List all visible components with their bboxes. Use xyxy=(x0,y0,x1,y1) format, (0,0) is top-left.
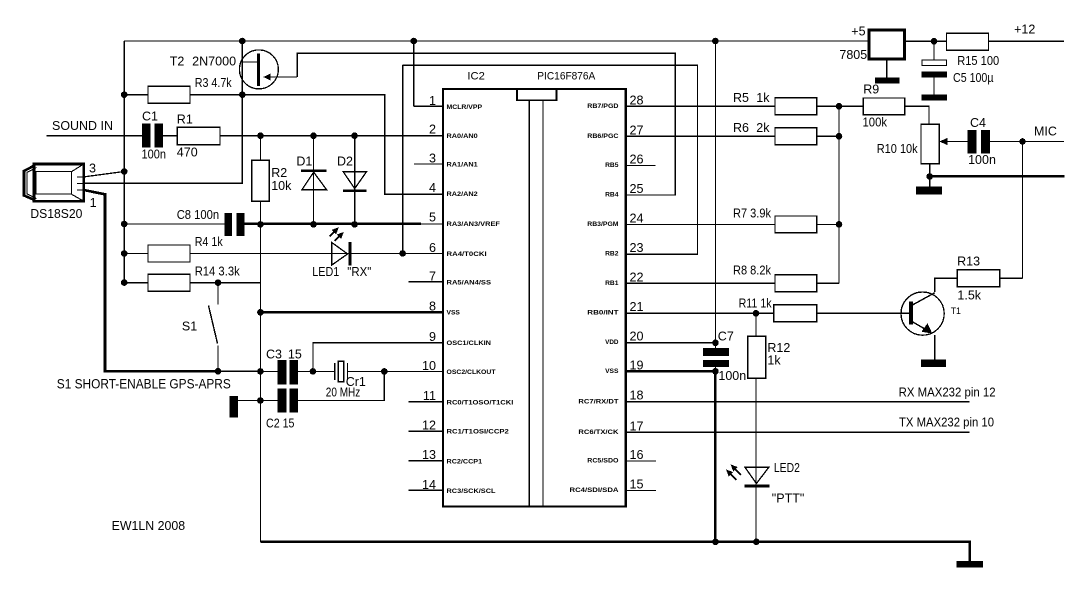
svg-text:RB6/PGC: RB6/PGC xyxy=(587,133,618,140)
svg-text:R11 1k: R11 1k xyxy=(739,296,773,310)
svg-text:21: 21 xyxy=(630,300,644,314)
svg-text:1k: 1k xyxy=(756,91,770,105)
svg-text:IC2: IC2 xyxy=(467,71,484,83)
svg-text:RB5: RB5 xyxy=(605,162,619,169)
svg-text:R10 10k: R10 10k xyxy=(877,142,919,156)
svg-text:RX MAX232 pin 12: RX MAX232 pin 12 xyxy=(899,385,996,400)
svg-text:R4 1k: R4 1k xyxy=(195,235,224,249)
svg-text:C5 100µ: C5 100µ xyxy=(953,71,994,85)
svg-text:24: 24 xyxy=(630,211,644,225)
svg-text:S1 SHORT-ENABLE GPS-APRS: S1 SHORT-ENABLE GPS-APRS xyxy=(57,377,231,392)
svg-text:LED1: LED1 xyxy=(312,265,339,279)
svg-text:RC1/T1OSI/CCP2: RC1/T1OSI/CCP2 xyxy=(447,429,510,436)
svg-text:470: 470 xyxy=(177,146,198,160)
svg-text:RC4/SDI/SDA: RC4/SDI/SDA xyxy=(570,487,619,494)
svg-text:RC2/CCP1: RC2/CCP1 xyxy=(447,458,483,465)
svg-text:C1: C1 xyxy=(142,109,158,123)
svg-text:RB4: RB4 xyxy=(605,192,619,199)
svg-text:C7: C7 xyxy=(718,329,734,343)
svg-text:MIC: MIC xyxy=(1034,124,1057,138)
svg-text:100n: 100n xyxy=(718,369,746,383)
svg-text:R14 3.3k: R14 3.3k xyxy=(195,264,241,278)
svg-text:1.5k: 1.5k xyxy=(957,288,981,302)
svg-text:DS18S20: DS18S20 xyxy=(30,206,82,221)
svg-text:MCLR/VPP: MCLR/VPP xyxy=(447,104,483,111)
svg-text:RC3/SCK/SCL: RC3/SCK/SCL xyxy=(447,488,496,495)
svg-text:6: 6 xyxy=(429,241,436,255)
svg-text:R15 100: R15 100 xyxy=(957,54,999,68)
svg-text:28: 28 xyxy=(630,93,644,107)
svg-text:"RX": "RX" xyxy=(347,265,371,279)
svg-text:15: 15 xyxy=(630,477,644,491)
svg-text:R6: R6 xyxy=(733,121,749,135)
svg-text:RB2: RB2 xyxy=(605,251,619,258)
svg-text:LED2: LED2 xyxy=(774,461,800,475)
svg-text:+12: +12 xyxy=(1014,23,1035,37)
svg-text:TX MAX232 pin 10: TX MAX232 pin 10 xyxy=(899,414,994,429)
svg-text:2: 2 xyxy=(429,123,436,137)
svg-text:RB1: RB1 xyxy=(605,280,619,287)
svg-text:"PTT": "PTT" xyxy=(772,492,805,506)
svg-text:RA2/AN2: RA2/AN2 xyxy=(447,191,478,198)
svg-text:+5: +5 xyxy=(851,24,865,38)
svg-text:R5: R5 xyxy=(733,91,749,105)
svg-text:25: 25 xyxy=(630,182,644,196)
svg-text:17: 17 xyxy=(630,419,644,433)
svg-text:20: 20 xyxy=(630,330,644,344)
svg-text:16: 16 xyxy=(630,448,644,462)
svg-text:23: 23 xyxy=(630,241,644,255)
svg-text:2N7000: 2N7000 xyxy=(192,55,236,69)
svg-text:R9: R9 xyxy=(863,82,879,96)
svg-text:10: 10 xyxy=(422,359,436,373)
svg-text:PIC16F876A: PIC16F876A xyxy=(537,71,595,83)
svg-text:S1: S1 xyxy=(182,319,197,333)
svg-text:D1: D1 xyxy=(296,154,312,168)
svg-text:EW1LN 2008: EW1LN 2008 xyxy=(112,518,186,533)
svg-text:D2: D2 xyxy=(337,154,353,168)
svg-text:C3: C3 xyxy=(266,347,282,361)
svg-text:OSC1/CLKIN: OSC1/CLKIN xyxy=(447,340,492,347)
svg-text:RA3/AN3/VREF: RA3/AN3/VREF xyxy=(447,221,500,228)
svg-text:3: 3 xyxy=(89,162,96,176)
svg-text:1: 1 xyxy=(90,196,97,210)
svg-text:2k: 2k xyxy=(756,121,770,135)
svg-text:RA5/AN4/SS: RA5/AN4/SS xyxy=(447,279,492,286)
svg-text:8: 8 xyxy=(429,300,436,314)
svg-text:1k: 1k xyxy=(767,353,781,367)
svg-text:C2 15: C2 15 xyxy=(266,417,295,431)
svg-text:100n: 100n xyxy=(968,153,996,167)
svg-text:C8 100n: C8 100n xyxy=(177,208,220,222)
svg-text:R1: R1 xyxy=(177,113,193,127)
svg-text:9: 9 xyxy=(429,330,436,344)
svg-text:T2: T2 xyxy=(170,55,185,69)
svg-text:RC0/T1OSO/T1CKI: RC0/T1OSO/T1CKI xyxy=(447,399,514,406)
svg-text:RA1/AN1: RA1/AN1 xyxy=(447,162,478,169)
svg-text:VSS: VSS xyxy=(605,368,619,375)
svg-text:15: 15 xyxy=(288,347,302,361)
svg-text:R13: R13 xyxy=(957,254,980,268)
svg-text:SOUND IN: SOUND IN xyxy=(52,118,113,133)
svg-text:100n: 100n xyxy=(142,148,167,162)
svg-text:OSC2/CLKOUT: OSC2/CLKOUT xyxy=(447,369,497,376)
svg-text:18: 18 xyxy=(630,389,644,403)
svg-text:26: 26 xyxy=(630,152,644,166)
svg-text:R3 4.7k: R3 4.7k xyxy=(195,76,233,90)
svg-text:5: 5 xyxy=(429,211,436,225)
svg-text:100k: 100k xyxy=(863,115,888,129)
svg-text:C4: C4 xyxy=(970,116,986,130)
svg-text:27: 27 xyxy=(630,123,644,137)
svg-text:VDD: VDD xyxy=(605,339,619,346)
svg-text:R8 8.2k: R8 8.2k xyxy=(733,264,772,278)
svg-text:10k: 10k xyxy=(271,179,292,193)
svg-text:RC5/SDO: RC5/SDO xyxy=(587,458,618,465)
svg-text:RB3/PGM: RB3/PGM xyxy=(587,221,619,228)
svg-text:RB7/PGD: RB7/PGD xyxy=(587,103,618,110)
svg-text:RC6/TX/CK: RC6/TX/CK xyxy=(578,429,618,436)
svg-text:22: 22 xyxy=(630,270,644,284)
svg-text:T1: T1 xyxy=(951,306,961,316)
svg-text:20 MHz: 20 MHz xyxy=(326,386,361,400)
svg-text:4: 4 xyxy=(429,181,436,195)
svg-text:7805: 7805 xyxy=(839,48,867,62)
svg-text:RA4/T0CKI: RA4/T0CKI xyxy=(447,251,487,258)
svg-text:RB0/INT: RB0/INT xyxy=(587,309,619,316)
svg-text:RC7/RX/DT: RC7/RX/DT xyxy=(578,398,619,405)
svg-text:R2: R2 xyxy=(271,166,287,180)
svg-text:R7 3.9k: R7 3.9k xyxy=(733,206,772,220)
svg-text:VSS: VSS xyxy=(447,310,461,317)
svg-text:RA0/AN0: RA0/AN0 xyxy=(447,133,478,140)
